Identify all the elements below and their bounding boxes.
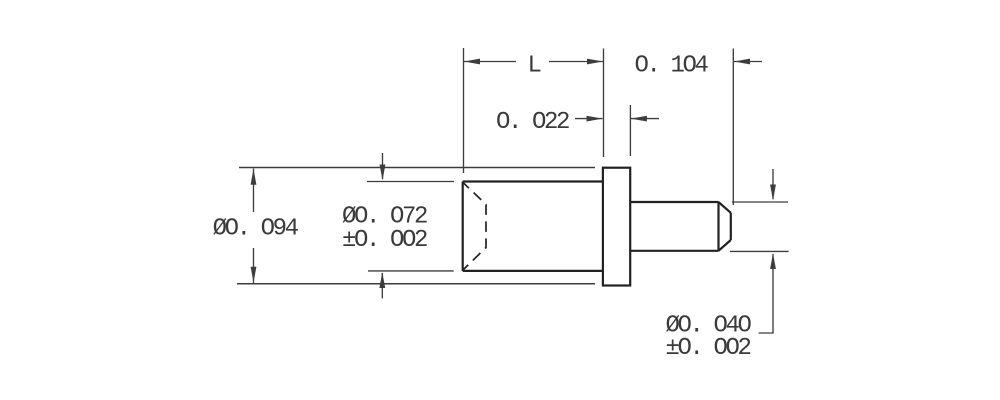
0.022 left arrowhead (points right) (587, 116, 603, 122)
L dim left arrowhead (464, 59, 480, 65)
L dimension line left segment (464, 61, 516, 63)
dia 0.040 upper arrowhead (points down) (770, 185, 776, 201)
bore top extension line (367, 181, 454, 183)
dia 0.072 lower arrowhead (points up) (379, 272, 385, 288)
dia 0.094 dim line upper segment (253, 169, 255, 213)
dia 0.040 upper arrow line (772, 169, 774, 199)
0.022 dim left arrow line (575, 118, 603, 120)
pin top edge (630, 201, 718, 203)
L dim right extension line (flange left face) (603, 49, 605, 158)
svg-text:L: L (528, 53, 541, 80)
pin bottom edge (630, 250, 718, 252)
dia 0.072 upper arrow line (382, 153, 384, 179)
pin top extension line (732, 201, 788, 203)
bore bottom extension line (368, 270, 454, 272)
0.104 dim arrow line (734, 61, 762, 63)
pin chamfer base line (717, 202, 719, 251)
dia 0.072 upper arrowhead (points down) (380, 165, 386, 181)
body bore top edge (463, 180, 603, 182)
svg-text:ØO. O94: ØO. O94 (213, 216, 299, 243)
0.022 right arrowhead (points left) (631, 116, 647, 122)
0.104 arrowhead (734, 59, 750, 65)
L dim right arrowhead (587, 59, 603, 65)
svg-text:±O. OO2: ±O. OO2 (666, 335, 751, 362)
pin tip end face (730, 213, 732, 240)
pin tip top chamfer (719, 202, 731, 213)
pin tip bottom chamfer (719, 240, 731, 251)
body outer top edge / diameter extension line (239, 167, 595, 169)
hidden chamfer dashed line (464, 183, 487, 270)
L dim left extension line (463, 48, 465, 173)
0.022 dim right arrow line (631, 118, 659, 120)
body left face (462, 182, 464, 272)
pin bottom extension line (730, 250, 789, 252)
body bore bottom edge (463, 270, 603, 272)
dia 0.040 lower arrow line with leader (759, 254, 773, 333)
body outer bottom edge / diameter extension line (237, 283, 595, 285)
L dimension line right segment (549, 61, 603, 63)
0.022 dim right extension line (flange right face) (629, 105, 631, 156)
svg-text:O. 1O4: O. 1O4 (635, 53, 709, 80)
svg-text:±O. OO2: ±O. OO2 (342, 227, 427, 254)
dia 0.094 dim line lower segment (253, 248, 255, 283)
dia 0.072 lower arrow line (381, 273, 383, 298)
flange rectangle (603, 168, 630, 286)
svg-text:O. O22: O. O22 (496, 109, 569, 136)
0.104 dim right extension line (pin tip) (732, 49, 734, 206)
dia 0.040 lower arrowhead (points up) (770, 253, 776, 269)
dia 0.094 upper arrowhead (points up) (251, 169, 257, 185)
dia 0.094 lower arrowhead (points down) (251, 267, 257, 283)
